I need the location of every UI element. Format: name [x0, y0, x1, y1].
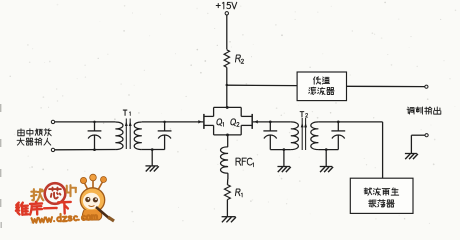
input terminal bottom [51, 148, 54, 151]
transformer T1 primary winding [115, 122, 123, 150]
carrier regeneration oscillator block 载波再生振荡器 [350, 178, 413, 213]
wire T2 secondary top to oscillator [318, 121, 382, 123]
resistor R2 [224, 50, 244, 68]
wire T2 secondary bottom [318, 149, 338, 151]
ground (T2 primary) [277, 166, 290, 168]
wire bottom rail [214, 134, 242, 136]
ground (output) [405, 153, 417, 155]
wire T2 primary to ground [283, 150, 285, 167]
wire tap to low-pass filter [227, 84, 297, 86]
wire right riser (Q2 drain) [240, 107, 242, 116]
wire right riser (Q2 source) [240, 125, 242, 134]
wire R2 to drain node [226, 67, 228, 107]
wire LPF to output terminal [347, 85, 425, 87]
output terminal (调制输出 top) [425, 85, 428, 88]
watermark text 维库一下 [16, 201, 71, 216]
low-pass filter block 低通滤波器 [297, 72, 346, 101]
transformer T2 primary winding [291, 122, 299, 150]
node bottom rail junction [226, 133, 229, 136]
label 调制输出 [407, 107, 441, 114]
capacitor C4 (T2 secondary tank) [331, 122, 345, 150]
transistor Q1 [198, 114, 223, 129]
wire T1 secondary top to Q1 gate [142, 121, 204, 123]
wire T1 bottom to ground [151, 150, 153, 166]
watermark text www.dzsc.com [31, 212, 97, 223]
scan artifacts left edge [0, 104, 2, 228]
label 由中频放大器输入 [17, 129, 51, 145]
watermark mascot [80, 174, 114, 221]
wire +15V to R2 [226, 15, 228, 50]
output ground terminal [411, 134, 428, 154]
node top rail junction [226, 106, 229, 109]
transformer T1 core [123, 110, 131, 149]
wire Q2 gate to T2 primary [253, 121, 291, 123]
inductor RFC1 [221, 147, 254, 173]
node T2 secondary ground junction [325, 148, 328, 151]
node C3 junction [269, 121, 272, 124]
node C4 junction [337, 121, 340, 124]
ground (R1) [222, 216, 236, 218]
capacitor C3 (T2 primary tank) [263, 122, 277, 150]
input terminal top [51, 120, 54, 123]
wire input bottom to T1 [55, 149, 116, 151]
watermark logo 找芯片 [31, 183, 76, 204]
node junction R2/LPF tap [226, 84, 229, 87]
wire T1 secondary bottom [142, 149, 165, 151]
wire top rail [214, 106, 242, 108]
ground (T1 secondary) [145, 165, 158, 167]
ground (T2 secondary) [320, 166, 333, 168]
+15V supply terminal [216, 2, 237, 15]
wire T2 primary bottom [270, 149, 291, 151]
resistor R1 [225, 185, 243, 200]
capacitor C1 (input tank) [88, 121, 102, 151]
wire source node to RFC1 [227, 135, 229, 147]
wire input top to T1 [55, 121, 116, 123]
wire T2 secondary to ground [325, 150, 327, 167]
transformer T2 core [300, 112, 308, 150]
node T1 ground junction [151, 148, 154, 151]
wire RFC1 to R1 [227, 173, 229, 179]
wire left riser (Q1 drain) [213, 107, 215, 116]
transformer T1 secondary winding [134, 122, 142, 150]
scan noise specks [148, 34, 151, 37]
node T2 primary ground junction [283, 148, 286, 151]
capacitor C2 (T1 secondary tank) [158, 121, 172, 150]
transistor Q2 [230, 114, 257, 129]
wire R1 to ground [226, 200, 228, 217]
wire left riser (Q1 source) [213, 125, 215, 134]
transformer T2 secondary winding [311, 122, 319, 150]
